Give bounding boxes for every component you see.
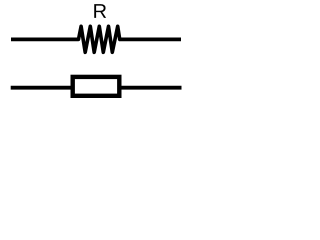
resistor R : left lead wire [11,38,79,42]
label R [94,4,106,18]
resistor R (ANSI zigzag element) [79,26,120,52]
wire (right lead of IEC resistor) [120,86,182,90]
resistor R : right lead wire [119,38,181,42]
resistor body (IEC rectangle) [73,77,120,96]
resistor (IEC box symbol) : left lead wire [11,86,72,90]
